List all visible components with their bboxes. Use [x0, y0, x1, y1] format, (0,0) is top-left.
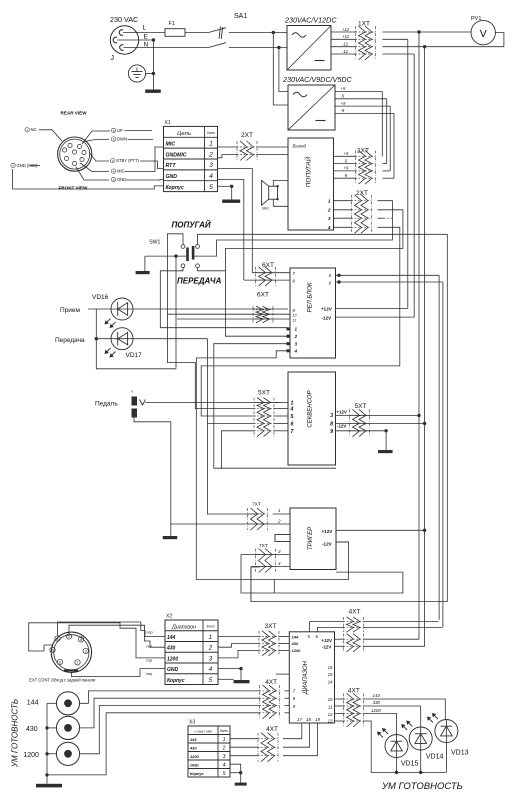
svg-text:14: 14: [328, 679, 333, 684]
svg-text:4XT: 4XT: [265, 679, 277, 686]
svg-text:+9: +9: [344, 166, 349, 171]
svg-text:2XT: 2XT: [357, 148, 369, 155]
svg-text:2: 2: [208, 151, 213, 158]
svg-text:STBY (PTT): STBY (PTT): [116, 158, 139, 163]
svg-text:+12: +12: [342, 27, 350, 32]
svg-text:7: 7: [77, 661, 79, 665]
svg-text:Корпус: Корпус: [190, 771, 205, 776]
svg-text:+5: +5: [344, 151, 349, 156]
svg-text:5: 5: [80, 638, 82, 642]
svg-text:Выход: Выход: [293, 144, 307, 149]
svg-text:4: 4: [278, 561, 281, 566]
svg-text:СЕКВЕНСОР: СЕКВЕНСОР: [308, 390, 314, 427]
svg-text:Педаль: Педаль: [95, 401, 118, 408]
svg-text:3: 3: [223, 754, 226, 760]
svg-text:11: 11: [293, 318, 297, 322]
svg-text:-12V: -12V: [322, 645, 331, 650]
svg-text:чер: чер: [146, 672, 152, 676]
svg-text:5XT: 5XT: [258, 390, 270, 397]
svg-text:УМ ГОТОВНОСТЬ: УМ ГОТОВНОСТЬ: [11, 699, 20, 768]
svg-text:MIC: MIC: [117, 169, 125, 174]
svg-text:7XT: 7XT: [259, 543, 268, 549]
svg-text:2: 2: [222, 745, 226, 751]
svg-text:Диапазон: Диапазон: [171, 624, 196, 630]
svg-text:430: 430: [373, 700, 381, 705]
svg-text:4: 4: [209, 173, 213, 180]
svg-text:17: 17: [297, 717, 302, 722]
svg-text:7: 7: [12, 164, 14, 168]
svg-text:11: 11: [328, 704, 333, 709]
svg-text:РЕЛ.БЛОК: РЕЛ.БЛОК: [308, 282, 314, 312]
svg-text:1: 1: [278, 508, 281, 513]
svg-text:5: 5: [209, 677, 213, 684]
svg-text:GND: GND: [190, 762, 199, 767]
svg-text:6XT: 6XT: [257, 292, 269, 299]
svg-text:+12: +12: [342, 34, 350, 39]
svg-text:5: 5: [291, 414, 294, 420]
svg-text:1: 1: [223, 737, 226, 743]
svg-text:сер: сер: [147, 631, 153, 635]
svg-text:3: 3: [209, 655, 213, 662]
svg-text:4: 4: [113, 170, 115, 174]
svg-text:3: 3: [209, 162, 213, 169]
svg-text:430: 430: [291, 641, 299, 646]
svg-text:4XT: 4XT: [266, 726, 278, 733]
svg-text:144: 144: [190, 737, 197, 742]
svg-text:Конт: Конт: [220, 729, 228, 733]
svg-text:Корпус: Корпус: [167, 678, 185, 684]
svg-text:x: x: [131, 390, 133, 394]
svg-text:X2: X2: [166, 614, 172, 620]
svg-text:J: J: [111, 55, 115, 62]
svg-text:1: 1: [52, 649, 54, 653]
svg-text:430: 430: [189, 745, 197, 750]
svg-text:5: 5: [209, 184, 213, 191]
svg-text:Конт: Конт: [206, 625, 214, 629]
svg-text:Передача: Передача: [55, 337, 85, 344]
svg-text:3: 3: [113, 178, 115, 182]
svg-text:L: L: [143, 25, 147, 32]
svg-text:-12: -12: [342, 42, 349, 47]
svg-text:3: 3: [85, 650, 87, 654]
svg-text:ПЕРЕДАЧА: ПЕРЕДАЧА: [177, 277, 222, 286]
svg-text:18: 18: [306, 717, 311, 722]
svg-text:4: 4: [57, 637, 59, 641]
svg-text:6: 6: [291, 421, 294, 427]
svg-text:5: 5: [223, 771, 226, 777]
svg-text:2: 2: [68, 635, 70, 639]
svg-text:+12V: +12V: [322, 529, 334, 534]
svg-text:EXT CONT Обход с задней панели: EXT CONT Обход с задней панели: [29, 678, 95, 683]
svg-text:+12V: +12V: [322, 638, 332, 643]
svg-text:13: 13: [328, 719, 333, 724]
svg-text:2: 2: [112, 159, 114, 163]
svg-text:6XT: 6XT: [262, 262, 274, 269]
svg-text:2: 2: [277, 519, 281, 524]
svg-text:1: 1: [291, 401, 294, 407]
svg-text:8: 8: [330, 422, 333, 428]
svg-text:5XT: 5XT: [355, 403, 367, 410]
svg-text:1200: 1200: [371, 708, 381, 713]
svg-text:ПОПУГАЙ: ПОПУГАЙ: [172, 221, 211, 230]
svg-text:5: 5: [113, 138, 115, 142]
svg-text:144: 144: [373, 693, 381, 698]
svg-text:-12: -12: [342, 49, 349, 54]
svg-text:6: 6: [59, 661, 61, 665]
svg-text:SA1: SA1: [234, 13, 247, 20]
svg-text:1200: 1200: [167, 656, 178, 662]
svg-text:RTT: RTT: [166, 163, 177, 169]
svg-text:Прием: Прием: [60, 307, 81, 314]
svg-text:E: E: [144, 34, 149, 41]
svg-text:4: 4: [209, 666, 213, 673]
svg-text:1200: 1200: [292, 648, 302, 653]
svg-text:1200: 1200: [23, 752, 39, 759]
svg-text:ДИАПАЗОН: ДИАПАЗОН: [303, 660, 309, 695]
svg-text:VD14: VD14: [426, 753, 444, 760]
svg-text:GNDMIC: GNDMIC: [166, 152, 187, 158]
svg-text:MIC: MIC: [166, 141, 176, 147]
svg-text:UP: UP: [117, 128, 123, 133]
svg-text:REAR VIEW: REAR VIEW: [61, 111, 88, 116]
svg-text:3: 3: [278, 549, 281, 554]
svg-text:X1: X1: [165, 120, 171, 126]
svg-text:X3: X3: [189, 720, 195, 726]
svg-text:VD17: VD17: [126, 352, 143, 359]
svg-text:VD13: VD13: [451, 750, 469, 757]
svg-text:Конт: Конт: [207, 131, 215, 135]
svg-text:1: 1: [209, 634, 212, 641]
svg-text:9: 9: [330, 429, 333, 435]
svg-text:Цепь: Цепь: [177, 131, 191, 137]
svg-text:230VAC/V12DC: 230VAC/V12DC: [284, 16, 337, 25]
svg-text:V: V: [480, 28, 487, 40]
svg-text:4: 4: [327, 225, 331, 231]
svg-text:1200: 1200: [190, 754, 199, 759]
svg-text:+5: +5: [341, 86, 346, 91]
svg-text:12: 12: [328, 712, 333, 717]
svg-text:2XT: 2XT: [356, 190, 368, 197]
svg-text:VD15: VD15: [401, 761, 419, 768]
svg-text:сир: сир: [146, 659, 152, 663]
svg-text:430: 430: [166, 646, 176, 652]
svg-text:син: син: [146, 644, 153, 648]
svg-text:6: 6: [113, 129, 115, 133]
svg-text:1: 1: [209, 140, 213, 147]
svg-text:16: 16: [328, 665, 333, 670]
svg-text:ПОПУГАЙ: ПОПУГАЙ: [304, 156, 313, 187]
svg-text:VD16: VD16: [92, 294, 109, 301]
svg-text:+U ВЫХ МВУ: +U ВЫХ МВУ: [194, 730, 214, 734]
svg-text:3: 3: [295, 342, 298, 347]
svg-text:2: 2: [208, 645, 213, 652]
svg-text:1: 1: [328, 198, 331, 204]
svg-text:15: 15: [328, 672, 333, 677]
svg-text:ВА1: ВА1: [262, 206, 269, 210]
svg-text:4XT: 4XT: [348, 688, 360, 695]
svg-text:4: 4: [290, 407, 294, 413]
svg-text:144: 144: [292, 634, 299, 639]
svg-text:F1: F1: [169, 21, 175, 27]
svg-text:3: 3: [330, 413, 333, 419]
svg-text:Корпус: Корпус: [166, 185, 184, 191]
svg-text:-12V: -12V: [322, 542, 333, 547]
svg-text:+12V: +12V: [321, 307, 333, 312]
svg-text:4: 4: [223, 762, 226, 768]
svg-text:-12V: -12V: [337, 424, 346, 429]
svg-text:4XT: 4XT: [349, 609, 361, 616]
svg-text:-12V: -12V: [322, 316, 333, 321]
svg-text:144: 144: [167, 635, 176, 641]
svg-text:ТРИГЕР: ТРИГЕР: [308, 527, 314, 550]
svg-text:GND: GND: [166, 174, 178, 180]
svg-text:SW1: SW1: [149, 240, 160, 246]
svg-text:FRONT VIEW: FRONT VIEW: [59, 186, 89, 191]
svg-text:3: 3: [328, 216, 331, 222]
svg-text:230VAC/V9DC/V5DC: 230VAC/V9DC/V5DC: [282, 75, 353, 84]
svg-text:4: 4: [294, 349, 298, 354]
svg-text:GND: GND: [167, 667, 179, 673]
svg-text:10: 10: [293, 314, 297, 318]
svg-text:7XT: 7XT: [252, 502, 261, 508]
svg-text:2: 2: [294, 334, 298, 339]
svg-text:10: 10: [328, 697, 333, 702]
svg-text:144: 144: [27, 699, 39, 706]
svg-text:+9: +9: [341, 101, 346, 106]
svg-text:19: 19: [315, 717, 320, 722]
svg-text:NC: NC: [31, 127, 37, 132]
svg-text:+12V: +12V: [337, 410, 347, 415]
svg-text:1XT: 1XT: [358, 21, 370, 28]
svg-text:1: 1: [295, 327, 298, 332]
svg-text:2XT: 2XT: [241, 132, 253, 139]
svg-text:УМ ГОТОВНОСТЬ: УМ ГОТОВНОСТЬ: [381, 781, 463, 792]
svg-text:2: 2: [327, 207, 331, 213]
svg-text:430: 430: [26, 726, 38, 733]
svg-text:1: 1: [26, 128, 28, 132]
svg-text:GND: GND: [117, 177, 126, 182]
svg-text:3XT: 3XT: [265, 623, 277, 630]
svg-text:230 VAC: 230 VAC: [110, 15, 138, 24]
svg-text:DWN: DWN: [117, 137, 127, 142]
